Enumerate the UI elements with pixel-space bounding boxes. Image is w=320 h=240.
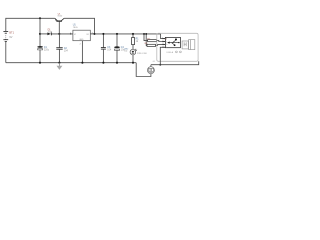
wire left vertical x40 lower [39, 50, 41, 63]
node junction dot gnd x160 [159, 64, 161, 66]
node junction dot bottom x40 [39, 62, 41, 64]
svg-text:BT1: BT1 [9, 32, 14, 35]
wire U1 right pin [90, 33, 94, 35]
wire R1 to LED [132, 45, 134, 50]
wire C3 branch lower [102, 49, 104, 63]
node junction dot bottom x82 [81, 62, 83, 64]
svg-text:22R 0.5W: 22R 0.5W [137, 53, 148, 55]
battery BT1 [3, 31, 8, 41]
pin U1 left pin endpoint [70, 33, 71, 34]
svg-text:2: 2 [162, 40, 163, 42]
wire C3 branch upper [102, 34, 104, 47]
pin USB pin2 stub [162, 41, 165, 43]
wire left vertical x40 upper [39, 18, 41, 46]
capacitor C1 (polarized) [37, 46, 43, 50]
node junction dot output x103 [102, 33, 104, 35]
wire transistor base lead [58, 22, 60, 34]
pin USB pin4 stub [162, 46, 165, 48]
wire bottom rail (ground rail) [6, 62, 136, 64]
wire C4 branch lower [116, 50, 118, 63]
node junction dot output x133 [132, 33, 134, 35]
diode D1 [47, 33, 51, 36]
capacitor C4 (polarized) [114, 46, 120, 50]
wire R3 to USB pin3 [156, 44, 166, 45]
wire LED to bottom rail [132, 55, 134, 63]
wire U1 ground pin to bottom rail [81, 41, 83, 63]
USB trident icon [167, 39, 179, 47]
outer module box around USB connector [157, 33, 198, 61]
node junction dot top rail x40 [39, 17, 41, 19]
node junction dot output x117 [116, 33, 118, 35]
ground symbol [57, 63, 63, 70]
wire gnd run to shield stub [151, 61, 199, 64]
wire R2 drop from rail [144, 34, 148, 41]
wire x59 vertical to C2 [58, 34, 60, 48]
USB plug graphic large shell [189, 40, 195, 50]
wire USB pin4 to gnd wire [160, 47, 165, 64]
node junction dot bottom x103 [102, 62, 104, 64]
svg-text:USB-A: USB-A [166, 51, 173, 54]
wire top rail left segment [6, 18, 55, 31]
wire middle rail diode to regulator [52, 33, 73, 35]
wire top rail right segment [64, 18, 94, 34]
node junction dot middle x40 [39, 33, 41, 35]
capacitor C2 [56, 48, 62, 50]
pin USB pin3 stub [162, 43, 165, 45]
resistor R2 [148, 40, 157, 42]
node junction dot middle x59 [58, 33, 60, 35]
capacitor C3 [101, 48, 106, 50]
node junction dot bottom x133 [132, 62, 134, 64]
wire output rail [95, 33, 161, 35]
node junction dot output x94.5 [93, 33, 95, 35]
USB shield pad circle left [176, 51, 178, 53]
node junction dot bottom x117 [116, 62, 118, 64]
transistor Q1 [55, 18, 64, 21]
svg-text:3: 3 [162, 43, 163, 45]
svg-text:V: V [166, 38, 167, 40]
connector USB1 symbol box [165, 37, 180, 47]
wire battery bottom lead [5, 42, 7, 63]
wire middle rail left of diode [40, 33, 48, 35]
USB shield pad circle right [180, 51, 182, 53]
wire x59 vertical C2 to bottom rail [58, 49, 60, 63]
wire R2 to USB pin2 [157, 40, 166, 43]
op-amp U1 voltage regulator box [73, 30, 90, 41]
node junction dot output x146 [145, 33, 147, 35]
wire R1 branch from rail [132, 34, 134, 38]
svg-text:7805: 7805 [73, 27, 79, 29]
wire R3 drop from rail [145, 34, 148, 46]
pin USB pin1 stub [162, 38, 165, 40]
resistor R1 [132, 38, 135, 45]
svg-text:9V: 9V [9, 36, 12, 39]
LED D2 [130, 49, 137, 55]
gnd net symbol circle (earth in circle) [147, 65, 154, 74]
wire gnd extension under LED column to buzzer bottom [136, 63, 151, 77]
wire VBUS rail end to USB pin1 [161, 34, 166, 39]
wire C4 branch upper [116, 34, 118, 47]
node junction dot bottom x59 [58, 62, 60, 64]
svg-text:2: 2 [80, 43, 81, 45]
svg-text:1: 1 [162, 37, 163, 39]
svg-text:220u: 220u [44, 50, 50, 52]
resistor R3 [147, 44, 156, 46]
node junction dot output x144 [143, 33, 145, 35]
svg-text:GND: GND [79, 39, 84, 41]
USB plug graphic small shell [182, 41, 188, 49]
svg-text:D+: D+ [166, 44, 168, 46]
